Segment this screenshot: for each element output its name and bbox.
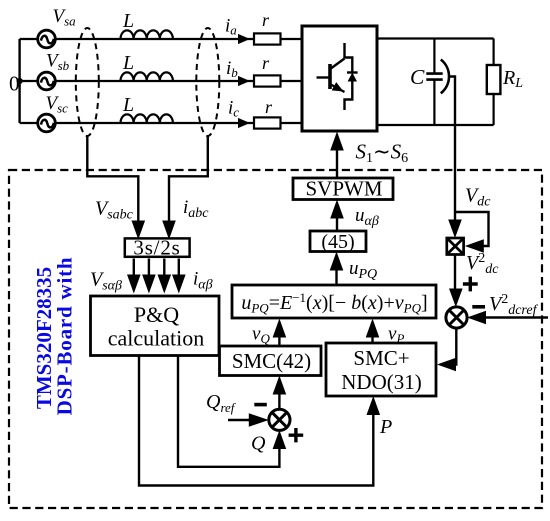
source Vsb: [38, 51, 70, 90]
svg-text:Vsa: Vsa: [53, 6, 77, 29]
wire uPQ: [330, 252, 377, 286]
wire ualphabeta: [330, 200, 379, 232]
svg-text:vP: vP: [388, 324, 404, 347]
svg-text:TMS320F28335: TMS320F28335: [32, 267, 56, 409]
svg-text:Q: Q: [251, 433, 266, 455]
resistor r phase c: [254, 97, 281, 129]
svg-text:L: L: [122, 52, 134, 74]
wire phase a: [20, 38, 302, 40]
resistor r phase a: [254, 10, 281, 45]
inductor L phase a: [121, 10, 173, 39]
wire Vdc sense: [448, 77, 491, 239]
box 3s/2s: [125, 235, 190, 259]
svg-text:Qref: Qref: [206, 391, 237, 415]
resistor r phase b: [254, 53, 281, 87]
multiplier (Vdc squarer): [447, 238, 464, 255]
inductor L phase b: [121, 52, 173, 81]
svg-text:L: L: [122, 10, 134, 32]
svg-text:Vdc: Vdc: [465, 185, 491, 210]
wire dc bottom rail: [377, 124, 494, 126]
wire V2dc to summer: [449, 255, 463, 308]
svg-text:r: r: [262, 10, 270, 30]
wire dc top rail: [377, 37, 494, 39]
svg-text:ib: ib: [226, 58, 238, 80]
sensing ellipse voltage: [76, 28, 99, 136]
minus sign (V2dcref): [472, 305, 485, 309]
DSP board blue label: [32, 257, 77, 416]
wire dc error to SMC+NDO: [437, 328, 456, 372]
DSP board dashed border: [9, 170, 542, 508]
svg-text:r: r: [262, 53, 270, 73]
svg-text:S1∼S6: S1∼S6: [356, 140, 409, 167]
svg-text:(45): (45): [321, 231, 354, 253]
svg-text:r: r: [265, 97, 273, 117]
svg-text:V2dcref: V2dcref: [489, 292, 539, 318]
wire Vsalphabeta arrows: [90, 259, 156, 294]
sensing ellipse current: [196, 28, 219, 136]
resistor RL: [487, 39, 523, 126]
svg-text:Vsc: Vsc: [46, 93, 69, 116]
wire SMC42 to Q summer: [273, 376, 287, 410]
wire P feedback: [139, 356, 392, 486]
wire V2dcref input: [467, 311, 548, 325]
inductor L phase c: [121, 94, 173, 123]
svg-text:ia: ia: [225, 16, 237, 38]
IGBT Q1 symbol: [317, 43, 358, 110]
box feedback linearization equation: [232, 285, 436, 318]
box SVPWM: [293, 177, 393, 201]
svg-text:NDO(31): NDO(31): [341, 370, 421, 394]
wire phase b: [20, 80, 302, 82]
svg-text:RL: RL: [502, 67, 523, 91]
svg-text:uPQ=E−1(x)[− b(x)+vPQ]: uPQ=E−1(x)[− b(x)+vPQ]: [241, 290, 427, 316]
plus sign (Q): [289, 428, 304, 442]
wire iabc sense: [162, 135, 209, 240]
wire Q feedback: [178, 356, 286, 467]
svg-text:iabc: iabc: [183, 197, 209, 221]
wire phase c: [20, 122, 302, 124]
svg-text:3s/2s: 3s/2s: [133, 235, 180, 259]
svg-text:Vsαβ: Vsαβ: [90, 269, 122, 294]
svg-text:P&Q: P&Q: [134, 302, 179, 327]
svg-text:calculation: calculation: [108, 326, 205, 351]
current arrow ia: [225, 16, 250, 45]
svg-text:Vsb: Vsb: [46, 51, 70, 74]
wire Vsabc sense: [87, 135, 145, 240]
summing junction Vdc loop: [446, 307, 467, 328]
wire S1-S6 gate drive: [330, 132, 408, 179]
minus sign (Qref): [254, 403, 266, 407]
current arrow ib: [226, 58, 250, 86]
converter U1 (IGBT bridge): [302, 26, 377, 131]
svg-text:uPQ: uPQ: [349, 258, 377, 282]
svg-text:vQ: vQ: [252, 324, 270, 347]
wire ialphabeta arrows: [158, 259, 213, 294]
svg-text:SVPWM: SVPWM: [305, 177, 382, 201]
wire Qref input: [228, 413, 269, 426]
plus sign (V2dc): [463, 277, 478, 292]
svg-text:ic: ic: [228, 98, 239, 120]
svg-text:C: C: [410, 65, 425, 89]
source Vsa: [38, 6, 76, 48]
node 0 (neutral bus): [9, 39, 23, 123]
wire vQ: [252, 319, 286, 347]
box SMC+NDO(31): [326, 343, 436, 396]
svg-text:SMC+: SMC+: [353, 346, 409, 370]
box P&Q calculation: [91, 296, 220, 356]
summing junction Q loop: [269, 409, 290, 430]
svg-text:DSP-Board with: DSP-Board with: [53, 257, 77, 416]
wire Vdc squaring feedback: [455, 212, 489, 253]
box (45): [310, 231, 366, 253]
svg-text:P: P: [379, 416, 392, 438]
box SMC(42): [220, 346, 322, 376]
capacitor C: [410, 39, 449, 126]
current arrow ic: [228, 98, 250, 129]
svg-text:iαβ: iαβ: [193, 269, 213, 293]
wire vP: [366, 319, 405, 347]
svg-text:uαβ: uαβ: [355, 205, 379, 229]
source Vsc: [38, 93, 68, 132]
svg-text:SMC(42): SMC(42): [232, 349, 311, 373]
svg-text:L: L: [122, 94, 134, 116]
svg-text:V2dc: V2dc: [466, 251, 499, 277]
svg-text:Vsabc: Vsabc: [95, 198, 134, 223]
